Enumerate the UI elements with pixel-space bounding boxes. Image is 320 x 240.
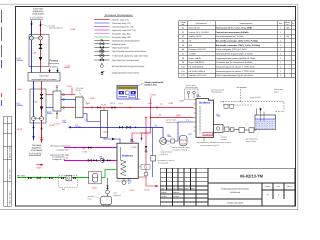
coil header pipe (120, 147, 122, 160)
main supply red pipe to boiler (83, 107, 194, 109)
control panel cabinet (117, 86, 138, 100)
HW cylinder K3 (117, 143, 138, 178)
membrane tank capsule (93, 173, 98, 182)
blue bottom link HX2 (104, 138, 120, 144)
title block header row text (161, 187, 195, 198)
svg-text:подсоединение дымохода выполни: подсоединение дымохода выполнить по мест… (197, 142, 232, 144)
svg-text:Бак мембр. расширит. (СО), V=5: Бак мембр. расширит. (СО), V=50л, Р=6бар (216, 40, 259, 43)
pump house label box (28, 73, 60, 82)
svg-text:Разраб: Разраб (161, 191, 167, 194)
svg-text:Схема тепловая: Схема тепловая (227, 201, 243, 204)
boiler inner column (199, 106, 201, 135)
svg-text:Листов: Листов (287, 185, 293, 188)
svg-text:Холодная вода (В1): Холодная вода (В1) (112, 32, 131, 35)
specification rows qty (280, 27, 290, 78)
risers below box 2 (33, 123, 35, 140)
legend row 3-way valve (94, 50, 109, 52)
HX1-HX2 blue link (83, 114, 101, 122)
valve on red main near HX1 (97, 106, 101, 108)
svg-text:+0,40: +0,40 (144, 189, 150, 192)
svg-text:Лист: Лист (173, 187, 177, 190)
title block right part lines (208, 182, 295, 184)
legend row safety valve (101, 72, 105, 75)
gas filter box (239, 128, 245, 133)
svg-text:+0,95: +0,95 (82, 151, 88, 154)
makeup pump (106, 190, 110, 194)
svg-text:Резерв: Резерв (50, 59, 59, 62)
svg-text:+0,40: +0,40 (131, 146, 137, 149)
svg-text:Индивидуальный жилой дом: Индивидуальный жилой дом (221, 188, 249, 191)
check valve circulation (107, 159, 111, 161)
red secondary line y117 (151, 117, 194, 119)
paper outer edge top (0, 3, 298, 5)
legend row balancing valve (94, 55, 109, 57)
gas line to filter (229, 129, 231, 131)
riser T2 blue top (31, 21, 33, 35)
svg-text:Предохранительный клапан: Предохранительный клапан (112, 72, 139, 75)
svg-text:Danfoss ECL: Danfoss ECL (145, 83, 158, 86)
drawing frame (16, 7, 296, 207)
svg-text:+1,00: +1,00 (129, 189, 135, 192)
svg-text:На кровлю: На кровлю (237, 86, 247, 89)
burner caption (221, 137, 227, 141)
svg-text:-0,60: -0,60 (36, 167, 42, 170)
filter box2 (40, 94, 44, 99)
red branch down to HX2 (103, 108, 105, 111)
svg-text:+0,00: +0,00 (17, 128, 23, 131)
tick valve red main b (156, 106, 158, 109)
svg-text:Стадия: Стадия (265, 185, 271, 188)
svg-text:+1,80: +1,80 (70, 28, 76, 31)
svg-text:Установка для 3-х секционных Д: Установка для 3-х секционных Д=45кВт (216, 61, 253, 64)
gas riser up (256, 108, 258, 130)
svg-text:GE124-6 WS: GE124-6 WS (189, 27, 201, 30)
red branch up at HX1 (71, 88, 73, 95)
svg-text:горелка: горелка (221, 139, 227, 141)
svg-text:НВ 25-6В 6605-В: НВ 25-6В 6605-В (189, 66, 205, 69)
svg-text:24.0: 24.0 (189, 44, 193, 47)
svg-text:Горячая вода ГВС (Т3): Горячая вода ГВС (Т3) (112, 25, 134, 28)
tank caption (274, 88, 283, 93)
svg-text:Magna 32В 6630-F: Magna 32В 6630-F (189, 61, 206, 64)
far-left cropped margin text marks (1, 10, 3, 106)
svg-text:поз.: поз. (181, 24, 185, 26)
specification rows name (216, 27, 261, 78)
svg-text:Grundfos UPS-15-40: Grundfos UPS-15-40 (189, 74, 207, 77)
specification rows designation (189, 27, 209, 78)
svg-text:Условные обозначения: Условные обозначения (104, 14, 133, 17)
legend row gas (94, 36, 109, 38)
left margin rotated captions (8, 145, 11, 204)
riser from box2 to separator blue (46, 107, 53, 109)
legend row T1 (94, 19, 109, 21)
svg-text:-0,00: -0,00 (17, 88, 23, 91)
DHW circulation magenta pipe (64, 160, 117, 162)
svg-text:Кол.уч: Кол.уч (167, 187, 172, 190)
svg-text:Инв. № подл.: Инв. № подл. (8, 191, 11, 204)
svg-text:циркуляционная установка: циркуляционная установка (31, 78, 57, 81)
svg-text:06-02/13-ТМ: 06-02/13-ТМ (240, 174, 264, 179)
green outlet to riser (101, 177, 105, 179)
svg-text:1,06: 1,06 (34, 101, 38, 104)
boiler bottom drain (203, 137, 205, 141)
junction dot blue main (135, 127, 137, 129)
svg-text:воды: воды (274, 91, 279, 93)
boiler Logamatic red panel (203, 132, 212, 135)
svg-text:с изолир. ГВС: с изолир. ГВС (56, 149, 69, 152)
svg-text:Петров: Петров (173, 195, 179, 198)
svg-text:1,06: 1,06 (33, 52, 37, 55)
svg-text:котловой воды: котловой воды (186, 86, 199, 89)
plate heat exchanger HX1 (76, 97, 84, 118)
expansion tank unit box (89, 171, 102, 184)
specification table header (180, 21, 294, 26)
tick valve red main a (91, 106, 93, 109)
valve on magenta supply (88, 147, 92, 149)
valve marks on risers (30, 24, 41, 26)
svg-text:Ду15: Ду15 (119, 102, 123, 105)
svg-text:Подп: Подп (184, 187, 188, 190)
bracket under Rezerv (49, 63, 60, 66)
sensor callout dashes (156, 153, 164, 158)
blue sensor riser (152, 128, 154, 178)
fitting on boiler return (171, 139, 175, 143)
svg-text:Насос циркуляционный Ду15, Д=0: Насос циркуляционный Ду15, Д=0,5м3/ч (216, 74, 254, 77)
svg-text:дренирования: дренирования (49, 27, 62, 30)
boiler K1 body (196, 99, 214, 138)
valve on red main (112, 106, 116, 109)
svg-text:Обозначение: Обозначение (196, 22, 207, 25)
tank feed pipes (260, 108, 262, 122)
chimney boxes (224, 104, 228, 108)
tank level sensor caption (246, 138, 258, 143)
svg-text:В1.2: В1.2 (111, 102, 116, 105)
makeup drop line (107, 178, 109, 197)
svg-text:Холодная вода ХВС: Холодная вода ХВС (112, 36, 132, 39)
svg-text:Шаровой кран: Шаровой кран (112, 43, 126, 46)
red line to HW tank (142, 133, 151, 141)
svg-text:Grundfos UPS0-100: Grundfos UPS0-100 (189, 48, 206, 51)
svg-text:Ду50: Ду50 (86, 102, 90, 105)
svg-text:У-10б II: У-10б II (50, 65, 58, 68)
svg-text:+2,08: +2,08 (168, 102, 174, 105)
svg-text:Logamatic: Logamatic (204, 133, 212, 136)
dosing caption (88, 196, 95, 200)
svg-text:Бак-водонагреватель, V=160л: Бак-водонагреватель, V=160л (216, 35, 245, 38)
svg-text:+0,60: +0,60 (181, 143, 187, 146)
separator stub mid blue (61, 99, 76, 101)
svg-text:воды в баке: воды в баке (246, 140, 256, 143)
specification table grid (179, 21, 296, 78)
meter internals (59, 177, 78, 179)
circulation pump K6 (100, 158, 104, 162)
title block change rows grid (166, 168, 168, 190)
boiler sensors pocket (185, 89, 199, 100)
pump circle right (39, 36, 43, 40)
svg-text:Ду50: Ду50 (148, 102, 152, 105)
blue riser to boiler pump (162, 127, 164, 137)
svg-text:Buderus: Buderus (122, 155, 133, 158)
gas fitting box 2 (231, 128, 235, 132)
bottom system text block (29, 144, 43, 155)
svg-text:+3,30: +3,30 (150, 94, 156, 97)
expansion tank K6 membrane (180, 136, 188, 146)
svg-text:Лист: Лист (277, 185, 281, 188)
red safety riser (150, 98, 152, 133)
gas meter link (245, 129, 250, 131)
svg-text:Logalux SU160: Logalux SU160 (189, 35, 202, 38)
svg-text:Обратная вода (Т2): Обратная вода (Т2) (112, 22, 131, 25)
svg-text:Пр: Пр (292, 22, 294, 25)
riser lines inside box1 (31, 35, 33, 67)
water treatment caption (114, 193, 122, 197)
legend row T2 (94, 22, 109, 24)
svg-text:60 кВт: 60 кВт (76, 89, 82, 92)
svg-text:Гидравлическая стрелка Ду50/Ду: Гидравлическая стрелка Ду50/Ду25, DN50 (216, 57, 256, 60)
return sensor caption (166, 120, 179, 124)
pump unit box 2 (30, 89, 46, 123)
valves on green pipe (28, 177, 32, 179)
DHW supply magenta pipe (64, 147, 117, 149)
svg-text:котлового контура: котлового контура (172, 149, 187, 151)
svg-text:Бак мембр. расширит. (ГВС), V=: Бак мембр. расширит. (ГВС), V=24л, Р=10б… (216, 44, 261, 47)
return main blue pipe (71, 127, 163, 129)
separator bottom drain (56, 111, 58, 119)
svg-text:+2,50: +2,50 (66, 85, 72, 88)
valves on circulation line (88, 159, 92, 161)
svg-text:Обратный клапан: Обратный клапан (112, 46, 129, 49)
svg-text:Ду25: Ду25 (176, 114, 182, 117)
arrowhead left on blue main (68, 126, 71, 128)
svg-text:Т1/Т2 95/70: Т1/Т2 95/70 (30, 16, 44, 19)
check valve box2 (40, 107, 44, 111)
svg-text:Котельная: Котельная (230, 191, 240, 194)
filter on red riser (39, 44, 43, 49)
riser T1 red top (40, 21, 42, 35)
title block signature rows (172, 190, 174, 206)
svg-text:Logatop DE 1.1 28-0011: Logatop DE 1.1 28-0011 (189, 31, 209, 34)
svg-text:Насосная группа со смесит. 1": Насосная группа со смесит. 1" GPR-25-60 (216, 70, 256, 73)
svg-text:Подп. и дата: Подп. и дата (8, 145, 11, 158)
svg-text:Провер: Провер (161, 195, 167, 198)
sensors callout text (186, 84, 199, 89)
svg-text:труба ДУ150: труба ДУ150 (250, 96, 261, 99)
riser from box2 to separator red (46, 94, 53, 96)
cold water green pipe (17, 177, 59, 179)
legend row ball valve (94, 43, 109, 45)
green pipe continues (78, 177, 90, 179)
svg-text:Насосная: Насосная (40, 74, 49, 77)
legend row T4 (94, 29, 109, 31)
svg-text:соли: соли (88, 198, 92, 200)
burner K2 (214, 124, 224, 132)
svg-text:№док: №док (178, 187, 183, 190)
paper outer edge bottom (0, 208, 298, 210)
water storage tank (255, 115, 276, 130)
svg-text:подпитки: подпитки (114, 195, 122, 197)
svg-text:Автоматический воздухоотводчик: Автоматический воздухоотводчик (112, 65, 145, 68)
boiler pump K4 (160, 138, 167, 145)
svg-text:Кол: Кол (279, 22, 282, 25)
svg-text:Циркуляц. вода ГВС (Т4): Циркуляц. вода ГВС (Т4) (112, 29, 136, 32)
DHW supply caption (50, 144, 70, 151)
svg-text:Горелка вентиляторная, Д=60кВт: Горелка вентиляторная, Д=60кВт (216, 31, 249, 34)
specification rows marks (181, 27, 185, 78)
pump circles box2 (32, 117, 36, 121)
drainage callout (41, 24, 49, 27)
stubs below pump house box (33, 81, 35, 89)
svg-text:К11: К11 (17, 103, 22, 106)
green rise to cylinder (105, 170, 117, 178)
svg-text:Т1/Т2 95/70: Т1/Т2 95/70 (29, 152, 42, 155)
junction dot red main 2 (150, 107, 152, 109)
underline of title (31, 19, 43, 21)
legend row T3 (94, 26, 109, 28)
svg-text:Buderus: Buderus (199, 100, 211, 104)
svg-text:+2,00: +2,00 (179, 99, 185, 102)
hydraulic separator K8 (53, 91, 61, 111)
gas fitting box 1 (225, 127, 230, 132)
svg-text:Насос циркуляц. (ГВС) Д=1,7м3/: Насос циркуляц. (ГВС) Д=1,7м3/ч (216, 48, 247, 51)
water meter dashed box (59, 176, 78, 188)
pump circle left (30, 36, 34, 40)
cylinder bottom pump K7 (123, 178, 125, 180)
blue pipe pump to boiler (166, 122, 193, 141)
cylinder coil (121, 160, 127, 176)
legend row B1 (94, 33, 109, 35)
svg-text:газоход стальной Ду150: газоход стальной Ду150 (200, 144, 219, 147)
svg-text:+2,06: +2,06 (89, 97, 95, 100)
red feed into cylinder top (132, 133, 151, 143)
title block outer (160, 168, 295, 206)
svg-text:температуры: температуры (211, 92, 223, 94)
svg-text:обратной воды: обратной воды (166, 121, 179, 124)
red link cylinder bottom (138, 176, 146, 177)
DHW circulation caption (50, 153, 70, 161)
svg-text:отопления: отопления (32, 13, 44, 16)
svg-text:-0,60: -0,60 (39, 137, 45, 140)
recirculation fitting box (138, 166, 141, 168)
svg-text:Дата: Дата (191, 187, 195, 190)
pump unit box 1 (29, 35, 49, 67)
plate heat exchanger HX2 (101, 111, 108, 138)
boiler left connection stubs (194, 104, 197, 131)
svg-text:Наименование: Наименование (240, 22, 252, 25)
valve blue main 2 (127, 126, 131, 129)
left margin attribute table (3, 117, 11, 207)
valve ticks below box2 (32, 127, 34, 129)
legend row pipe w tick (94, 39, 109, 41)
reserve stub right (57, 68, 59, 72)
title block object name (221, 188, 249, 205)
HX1 caption (76, 87, 85, 92)
red return riser right of cylinder (145, 118, 147, 173)
red drain arrow bottom (36, 164, 43, 166)
separator stub low red to main (61, 107, 76, 109)
flue dashed contour (220, 89, 284, 112)
paper outer edge right (297, 4, 299, 210)
svg-text:Т-образный циркуляц. кран (вен: Т-образный циркуляц. кран (вентиль) (112, 55, 148, 58)
svg-text:Т 1000/1: Т 1000/1 (189, 53, 196, 56)
svg-text:Насосная группа со смесит. 1": Насосная группа со смесит. 1" GPR-25-60 (216, 66, 256, 69)
legend row check valve (94, 46, 109, 48)
svg-text:НВ 25-6В 6-6605-В: НВ 25-6В 6-6605-В (189, 70, 206, 73)
cabinet callout (138, 83, 144, 86)
svg-text:Кран (вентиль) маховичный: Кран (вентиль) маховичный (112, 59, 140, 62)
red riser pump (144, 172, 148, 176)
risers between box1 and pump house box (31, 67, 33, 73)
svg-text:+1,20: +1,20 (65, 64, 71, 67)
svg-text:-0,05: -0,05 (103, 131, 109, 134)
separator air vent (56, 88, 58, 91)
separator stub top red (61, 94, 76, 96)
svg-text:Трехходовой смесительный клапа: Трехходовой смесительный клапан (112, 50, 146, 53)
outdoor sensor caption (211, 88, 224, 93)
svg-text:отопления: отопления (31, 149, 43, 152)
legend row air vent (101, 63, 102, 65)
svg-text:при монтаже: при монтаже (158, 163, 169, 165)
makeup valve (106, 186, 108, 190)
check valve on red riser (39, 57, 43, 61)
junction dot red main (129, 107, 131, 109)
cylinder sensor box (151, 156, 156, 162)
svg-text:+2,70: +2,70 (101, 103, 107, 106)
red drop to +0.40 (146, 176, 158, 186)
svg-text:Прямая вода (Т1): Прямая вода (Т1) (112, 18, 129, 21)
svg-text:К10: К10 (17, 58, 22, 61)
title block stage cells (265, 185, 293, 197)
pump caption (158, 146, 191, 164)
dosing tank (101, 196, 112, 205)
svg-text:Взам. инв.: Взам. инв. (8, 169, 11, 179)
svg-text:с водоразб. ХВ: с водоразб. ХВ (52, 158, 66, 161)
svg-text:Топливный бак на дизтопливе, V: Топливный бак на дизтопливе, V=1000л (216, 53, 254, 56)
legend row motor valve (94, 59, 109, 61)
svg-text:Напольный котел, чугун. секц.: Напольный котел, чугун. секц. 28кВт (216, 27, 253, 30)
svg-text:по месту: по месту (161, 154, 168, 156)
reserve stub left (49, 68, 51, 72)
svg-text:Magna 14В 25: Magna 14В 25 (189, 57, 201, 60)
svg-text:Иванов: Иванов (173, 191, 179, 194)
svg-text:Трубопровод перекачивания: Трубопровод перекачивания (112, 39, 140, 42)
svg-text:+2,20: +2,20 (54, 123, 60, 126)
svg-text:ГВС вода в помещение: ГВС вода в помещение (50, 144, 70, 147)
svg-text:+0,40: +0,40 (92, 187, 98, 190)
system title text top-left (30, 8, 44, 20)
valve blue main 1 (119, 126, 123, 129)
